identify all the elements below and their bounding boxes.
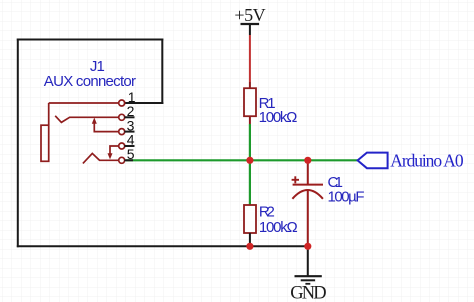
svg-text:5: 5 (127, 146, 135, 162)
wire GND net: pin1 stub right (124, 102, 164, 104)
resistor R2 (244, 204, 298, 237)
pin 3 stub (124, 131, 134, 133)
wire GND net: bottom horizontal (17, 245, 308, 247)
capacitor C1 (292, 160, 365, 246)
svg-text:100kΩ: 100kΩ (259, 109, 298, 126)
wire GND net: R2 bottom to bottom rail (249, 233, 251, 246)
pin number 3 (127, 117, 135, 133)
junction node at R2 bottom rail (246, 243, 253, 250)
wire A0 net: node down to R2 (249, 160, 251, 205)
svg-text:100kΩ: 100kΩ (259, 219, 298, 236)
pin 4 stub (124, 145, 134, 147)
svg-text:100µF: 100µF (328, 189, 365, 206)
pin 4 circle (119, 143, 125, 149)
wire A0 net: R1 bottom to node (249, 116, 251, 160)
net flag Arduino A0 (358, 151, 464, 171)
pin 2 stub (124, 116, 134, 118)
pin 2 circle (119, 114, 125, 120)
wire +5V net: red vertical (249, 25, 251, 89)
wire GND net: left vertical down (17, 39, 19, 248)
pin 3 circle (119, 129, 125, 135)
ground symbol GND (290, 276, 326, 302)
pin 1 circle (119, 100, 125, 106)
label AUX connector (44, 73, 136, 90)
svg-text:R2: R2 (259, 204, 275, 221)
svg-text:GND: GND (290, 284, 326, 302)
connector J1 symbol: sleeve rectangle (41, 103, 49, 161)
pin number 4 (127, 132, 135, 148)
label J1 (90, 58, 105, 75)
connector J1 symbol: tip contact to pin 2 (55, 116, 119, 123)
pin 5 stub (124, 159, 133, 161)
junction node at R1/R2 divider (246, 157, 253, 164)
wire A0 net: green horizontal (126, 159, 358, 161)
connector J1 symbol: ring contact to pin 5 (83, 153, 119, 163)
wire GND net: right vertical up (161, 39, 163, 105)
wire GND net: top horizontal (17, 39, 164, 41)
wire GND net: down to ground symbol (307, 246, 309, 275)
connector J1 symbol: tip switch arrow to pin 3 (92, 118, 120, 132)
connector J1 symbol: sleeve line to pin 1 (49, 102, 120, 104)
pin number 1 (128, 89, 136, 105)
connector J1 symbol: ring switch arrow to pin 4 (108, 146, 120, 159)
svg-text:Arduino A0: Arduino A0 (390, 151, 464, 171)
junction node at C1 top (304, 157, 311, 164)
pin 5 circle (119, 157, 125, 163)
power symbol +5V (234, 5, 265, 25)
svg-text:+5V: +5V (234, 5, 265, 25)
pin number 5 (127, 146, 135, 162)
svg-text:AUX connector: AUX connector (44, 73, 136, 90)
resistor R1 (244, 88, 297, 126)
pin number 2 (127, 103, 135, 119)
junction node at C1 bottom rail (304, 243, 311, 250)
